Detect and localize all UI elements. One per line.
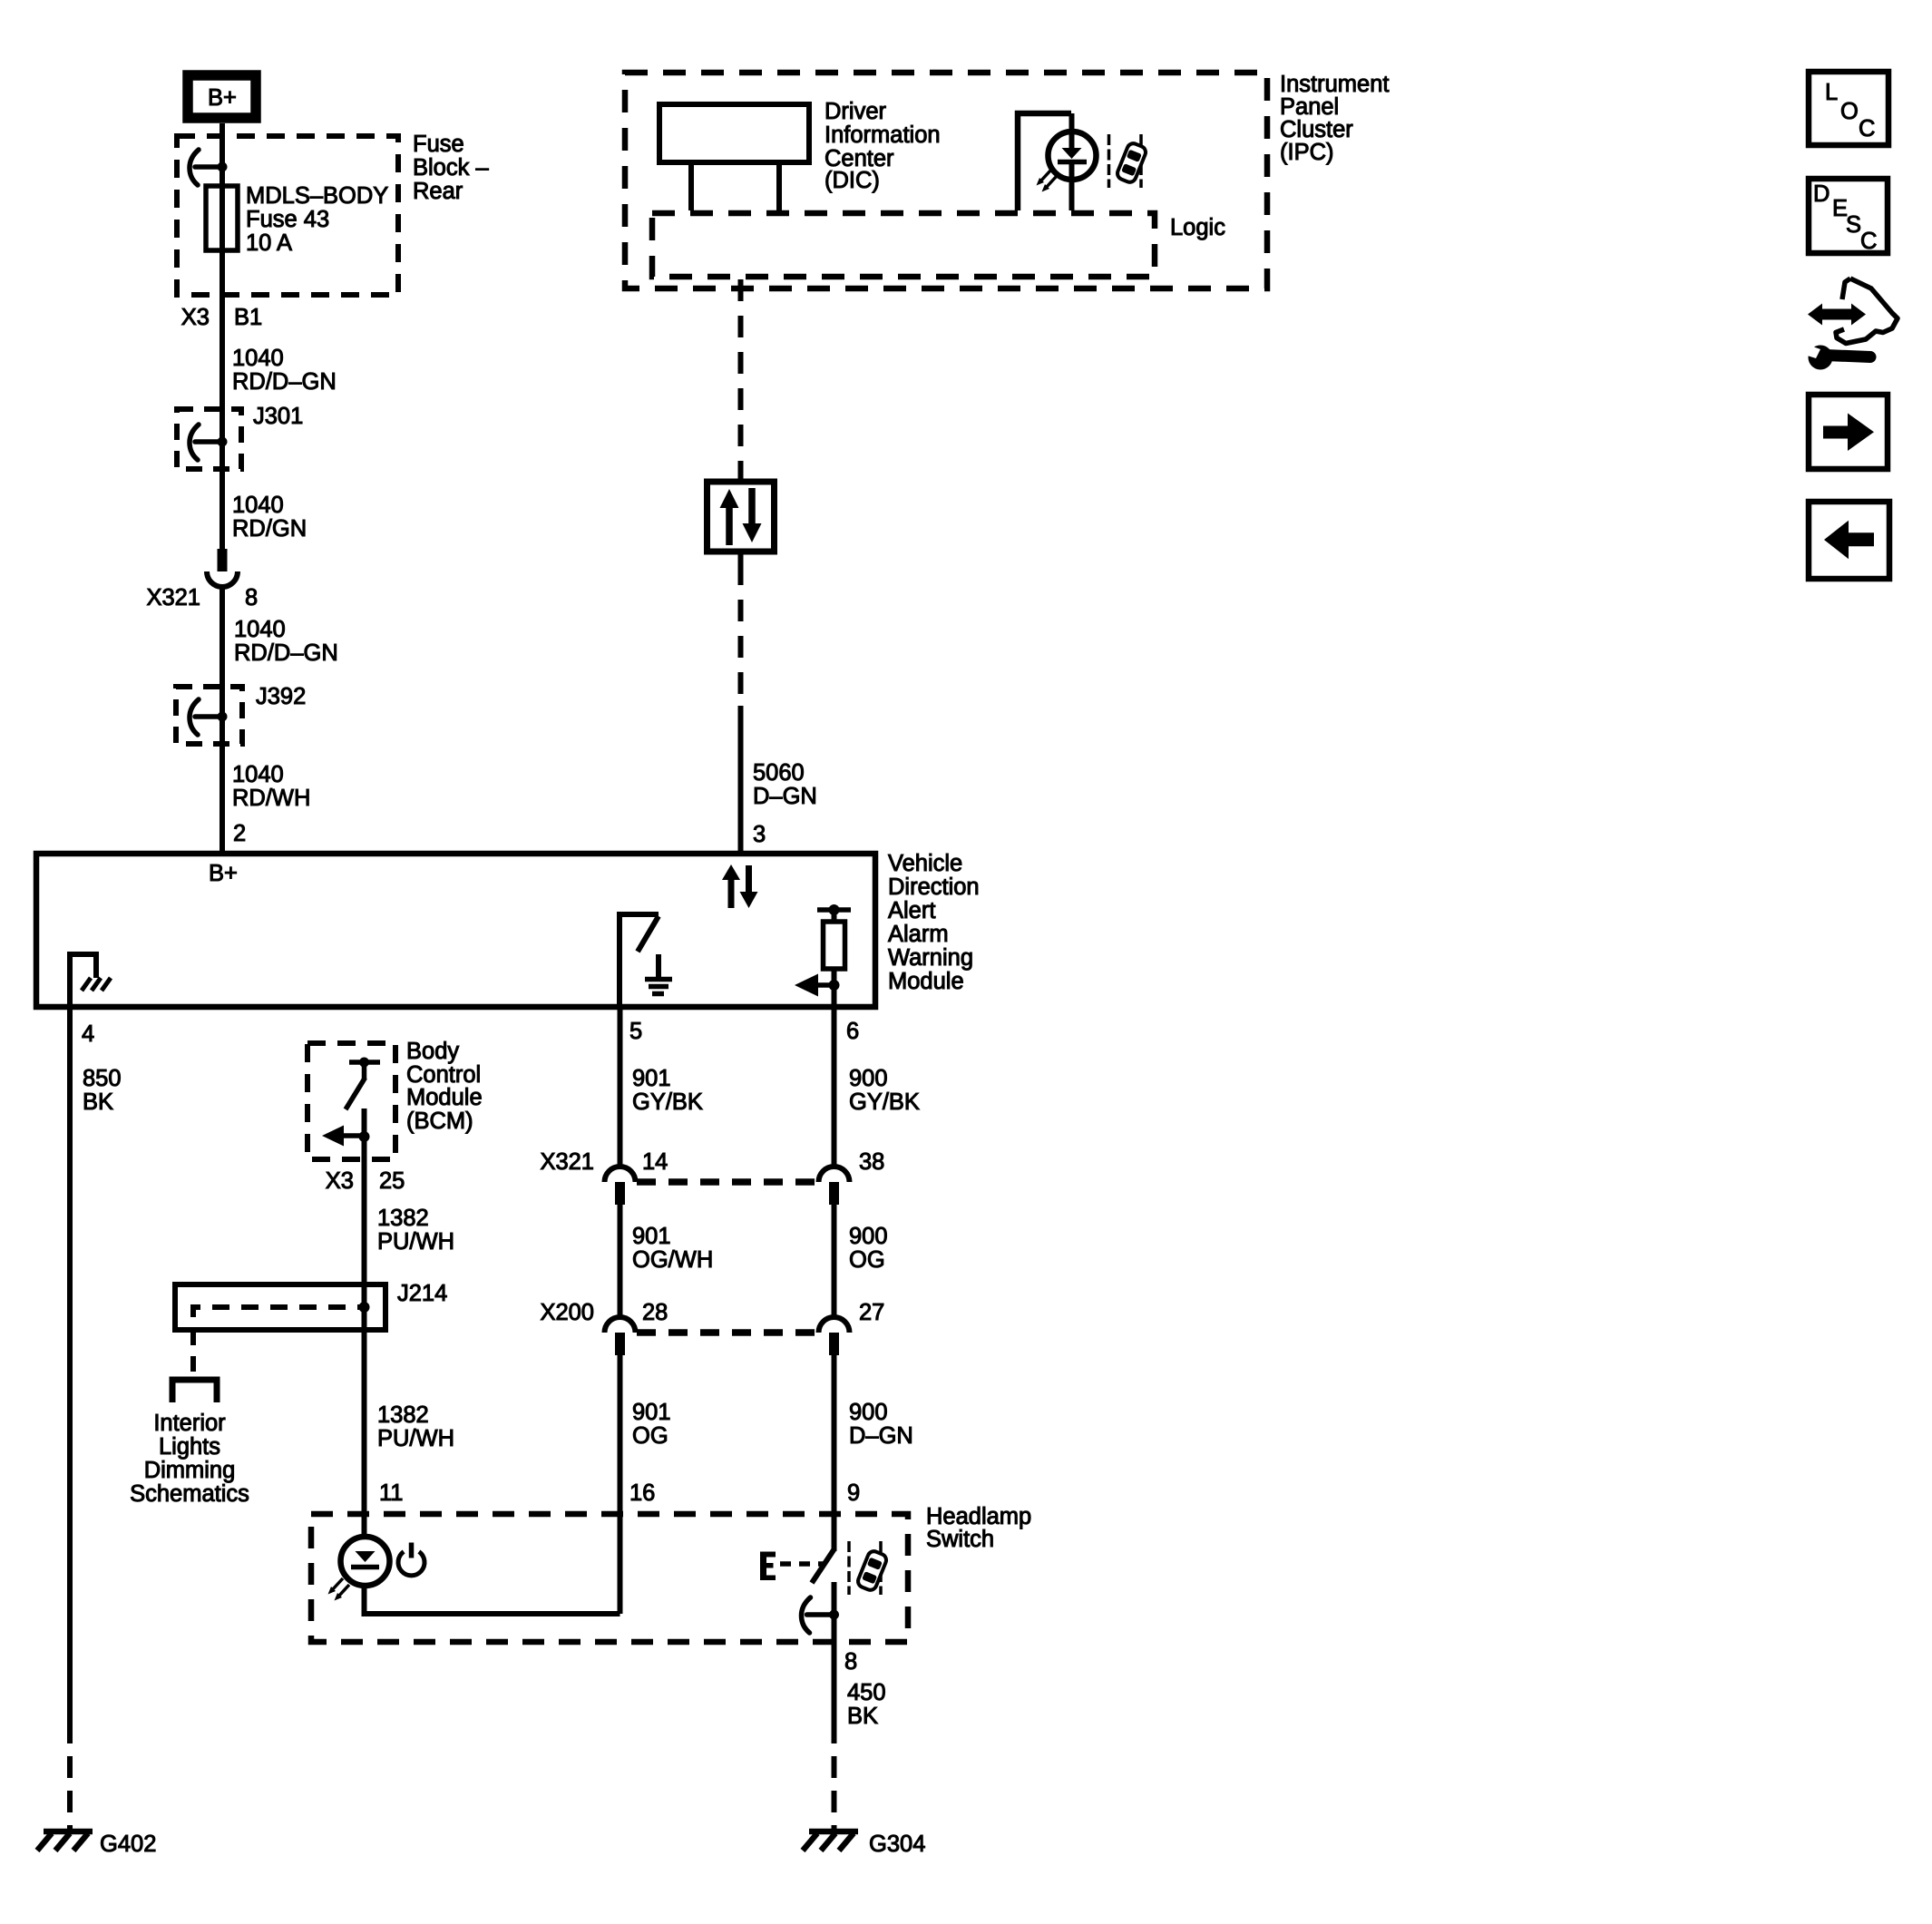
svg-text:OG: OG [632,1423,668,1449]
svg-text:Dimming: Dimming [144,1458,236,1483]
switch lower terminal hook [802,1597,840,1633]
svg-text:BK: BK [847,1704,878,1729]
lane dashed line left of car (switch) [847,1541,851,1595]
vehicle direction alert alarm warning module box [36,854,875,1007]
svg-text:Module: Module [888,969,964,994]
svg-text:27: 27 [859,1300,884,1325]
lane dashed line right of car (IPC) [1139,134,1143,188]
svg-text:1040: 1040 [232,493,284,518]
interior lights dimming schematics label [130,1411,249,1507]
BCM internal switch [346,1058,380,1110]
svg-text:900: 900 [849,1224,888,1249]
svg-text:J214: J214 [397,1281,447,1306]
svg-text:901: 901 [632,1066,671,1091]
dashed line E to switch [780,1561,824,1567]
svg-text:2: 2 [233,821,246,846]
LED diode anode lead [1069,113,1075,149]
wire label 901 OG/WH [632,1224,713,1273]
svg-text:Cluster: Cluster [1280,117,1353,142]
dashed data wire from logic [738,279,744,475]
wire W6 900 from module pin 6 [832,1007,837,1167]
svg-text:RD/GN: RD/GN [232,516,307,542]
svg-text:5060: 5060 [753,760,805,786]
svg-text:MDLS–BODY: MDLS–BODY [246,183,388,209]
driver information center DIC box [659,104,809,162]
splice J392 terminal [190,699,228,735]
svg-text:Vehicle: Vehicle [888,851,962,876]
headlamp internal bottom wire 11 to 16 [365,1586,620,1614]
headlamp LED diode triangle [356,1551,376,1562]
ground G402 [37,1831,93,1851]
lane dashed line right of car (switch) [879,1541,883,1595]
svg-text:5: 5 [629,1019,642,1044]
LOC icon box [1809,72,1888,145]
svg-text:1382: 1382 [377,1206,429,1231]
IPC name label [1280,72,1389,165]
module internal output arrow (pin 6) [795,974,840,997]
DIC leg right [776,165,782,210]
svg-text:X3: X3 [181,305,210,330]
wire label 1040 RD/GN [232,493,307,542]
DIC name label [825,99,941,193]
svg-text:J301: J301 [253,404,303,429]
svg-text:RD/WH: RD/WH [232,786,310,811]
J214 internal dashed bus [193,1307,364,1317]
splice J301 terminal [190,425,228,460]
svg-text:OG/WH: OG/WH [632,1247,713,1273]
wire 450 BK solid [832,1645,837,1743]
wire label 1040 RD/WH [232,762,310,811]
wire 450 BK dashed tail [832,1743,837,1829]
splice J392 dashed box [176,687,242,744]
svg-text:1382: 1382 [377,1402,429,1428]
wire W1 below X321 [220,586,225,853]
LED cathode lead to logic [1069,161,1075,210]
connector X321 pin 14 [605,1167,636,1205]
svg-text:S: S [1846,212,1861,238]
svg-text:L: L [1825,80,1838,105]
logic dashed box [652,213,1155,277]
svg-text:RD/D–GN: RD/D–GN [232,369,337,395]
wire label 900 D-GN [849,1400,913,1449]
svg-text:X321: X321 [540,1149,594,1175]
svg-text:X200: X200 [540,1300,594,1325]
svg-text:Logic: Logic [1170,215,1225,240]
headlamp backlight LED circle [341,1537,390,1586]
J214 junction dot [359,1302,370,1313]
svg-text:D–GN: D–GN [849,1423,913,1449]
instrument panel cluster IPC dashed box [625,73,1267,288]
fuse block rear dashed box [177,136,398,295]
svg-text:11: 11 [379,1480,403,1506]
serial data stub top [738,470,744,482]
forward reference arrow icon [1809,395,1888,469]
svg-text:Information: Information [825,122,941,148]
svg-text:C: C [1859,116,1875,142]
svg-text:38: 38 [859,1149,884,1175]
svg-text:Body: Body [406,1039,459,1064]
wire BCM pin 25 down (1382 PU/WH) [362,1108,367,1614]
car icon (IPC) [1116,142,1147,184]
wire W6 segment 900 D-GN [832,1355,837,1551]
wire W5 segment 901 OG [618,1355,623,1614]
wire W6 segment 900 OG [832,1205,837,1317]
svg-text:8: 8 [245,585,258,610]
svg-text:B+: B+ [208,85,237,111]
wire label 450 BK [847,1680,886,1729]
module internal switch to ground (pin 5) [620,914,672,1007]
svg-text:Control: Control [406,1062,481,1088]
svg-text:J392: J392 [256,684,306,709]
switch E terminal letter [760,1552,776,1581]
svg-text:Schematics: Schematics [130,1481,249,1507]
svg-text:Fuse 43: Fuse 43 [246,207,329,232]
svg-text:Panel: Panel [1280,94,1339,120]
serial data symbol box [707,482,775,552]
serial data up arrow [720,489,739,545]
connector X200 pin 27 [819,1317,850,1355]
svg-text:25: 25 [379,1168,405,1194]
svg-text:Instrument: Instrument [1280,72,1389,97]
svg-text:850: 850 [83,1066,122,1091]
svg-text:Block –: Block – [413,155,489,181]
svg-text:(BCM): (BCM) [406,1108,473,1134]
svg-text:14: 14 [642,1149,668,1175]
wire W1 B+ to fuse (1040 circuit) [220,123,225,550]
svg-text:X321: X321 [146,585,200,610]
headlamp switch dashed box [311,1514,908,1642]
wire label 1040 RD/D-GN (2) [234,617,338,666]
svg-text:GY/BK: GY/BK [632,1089,703,1115]
svg-text:D–GN: D–GN [753,784,817,809]
battery feed B+ symbol [188,75,256,118]
headlamp LED light ray arrows [328,1578,350,1601]
power symbol [398,1543,424,1576]
wire label 5060 D-GN [753,760,817,809]
svg-text:Warning: Warning [888,945,973,971]
svg-text:1040: 1040 [234,617,286,642]
connector X200 dashed tie line [637,1329,817,1336]
splice J301 dashed box [177,409,241,469]
svg-text:8: 8 [844,1649,857,1675]
svg-text:B1: B1 [234,305,262,330]
svg-text:1040: 1040 [232,762,284,787]
wire W5 901 from module pin 5 [618,1007,623,1167]
svg-text:Direction: Direction [888,874,980,900]
svg-text:16: 16 [629,1480,655,1506]
svg-text:PU/WH: PU/WH [377,1229,454,1255]
ground G304 [803,1831,858,1851]
wire below switch blade [832,1582,837,1645]
svg-text:Driver: Driver [825,99,887,124]
connector X321 pin 38 [819,1167,850,1205]
svg-text:3: 3 [753,822,766,847]
BCM pin labels X3 25 [326,1168,405,1194]
car icon (switch) [856,1549,888,1592]
svg-text:PU/WH: PU/WH [377,1426,454,1451]
svg-text:Rear: Rear [413,179,463,204]
svg-text:900: 900 [849,1400,888,1425]
wire label 900 GY/BK [849,1066,920,1115]
LED diode triangle [1062,148,1082,159]
LED cathode bar [1058,160,1087,165]
svg-text:901: 901 [632,1224,671,1249]
svg-text:(DIC): (DIC) [825,168,880,193]
svg-text:GY/BK: GY/BK [849,1089,920,1115]
wire label 1040 RD/D-GN [232,346,337,395]
svg-text:Switch: Switch [926,1527,994,1552]
BCM name label [406,1039,483,1134]
fuse F43 MDLS-BODY [206,186,238,250]
svg-text:1040: 1040 [232,346,284,371]
svg-text:Fuse: Fuse [413,132,464,157]
svg-text:G402: G402 [100,1831,156,1857]
serial data down arrow [743,488,762,542]
svg-text:D: D [1813,181,1830,207]
svg-text:O: O [1840,99,1859,124]
svg-text:900: 900 [849,1066,888,1091]
connector X321 dashed tie line [637,1178,817,1186]
svg-text:450: 450 [847,1680,886,1705]
pin X3 B1 labels [181,305,262,330]
connector X200 pin 28 [605,1317,636,1355]
label X321 8 [146,585,258,610]
svg-text:9: 9 [847,1480,860,1506]
wire label 900 OG [849,1224,888,1273]
LED light ray arrows [1037,170,1058,192]
serial data stub bottom [738,552,744,563]
swap-parts hand outline [1836,278,1898,344]
lane dashed line left of car (IPC) [1107,134,1111,188]
wire label 1382 PU/WH [377,1206,454,1255]
fuse block name label [413,132,489,204]
svg-text:X3: X3 [326,1168,354,1194]
labels X200 28 27 [540,1300,884,1325]
svg-text:10 A: 10 A [246,230,292,256]
module internal serial data arrows [722,864,758,908]
svg-text:Interior: Interior [153,1411,226,1436]
connector terminal at fuse block entry [190,150,228,185]
fuse value label [246,183,388,256]
BCM internal output arrow [322,1126,370,1147]
svg-text:OG: OG [849,1247,885,1273]
svg-text:RD/D–GN: RD/D–GN [234,640,338,666]
svg-text:G304: G304 [869,1831,925,1857]
headlamp switch blade [812,1549,834,1583]
wire label 1382 PU/WH (2) [377,1402,454,1451]
splice pack J214 box [175,1284,385,1330]
indicator LED bracket wire [1018,113,1071,210]
svg-text:B+: B+ [209,861,238,886]
labels X321 14 38 [540,1149,884,1175]
dashed stub to interior lights schematic [190,1330,196,1375]
indicator LED circle [1049,132,1097,180]
module name label [888,851,980,994]
in-line connector X321 pin 8 [207,549,238,587]
svg-text:28: 28 [642,1300,668,1325]
headlamp LED cathode bar [351,1565,379,1570]
DESC icon box [1809,179,1888,254]
headlamp switch name label [926,1504,1031,1552]
svg-text:Headlamp: Headlamp [926,1504,1031,1529]
svg-text:Module: Module [406,1085,483,1110]
svg-text:4: 4 [82,1021,94,1047]
wire W4 dashed tail [67,1743,73,1829]
wire label 901 OG [632,1400,671,1449]
wrench icon [1801,344,1870,370]
dashed data wire to module [738,563,744,708]
swap-parts hand icon double arrow [1808,304,1866,326]
DIC leg left [688,165,694,210]
wire label 850 BK [83,1066,122,1115]
wire label 901 GY/BK [632,1066,703,1115]
svg-text:901: 901 [632,1400,671,1425]
svg-text:C: C [1860,229,1877,254]
svg-text:Lights: Lights [159,1434,220,1460]
svg-text:BK: BK [83,1089,113,1115]
svg-text:6: 6 [846,1019,859,1044]
off-page connector fork [172,1380,217,1402]
wire W5 segment 901 OG/WH [618,1205,623,1317]
module internal chassis ground (pin 4) [70,954,111,1007]
svg-text:Alarm: Alarm [888,922,949,947]
module internal resistor (pin 6) [817,904,851,1007]
wire W4 850 BK solid [67,1007,73,1743]
svg-text:Alert: Alert [888,898,935,923]
body control module BCM dashed box [307,1043,395,1159]
solid wire 5060 D-GN [738,706,744,853]
svg-text:(IPC): (IPC) [1280,140,1334,165]
backward reference arrow icon [1809,502,1889,579]
